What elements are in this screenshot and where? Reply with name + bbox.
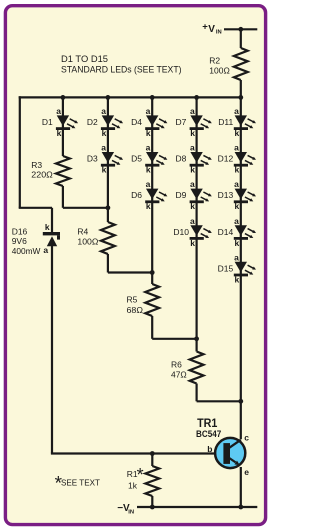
- svg-text:a: a: [234, 106, 239, 116]
- svg-text:D14: D14: [218, 227, 234, 237]
- svg-text:a: a: [234, 179, 239, 189]
- svg-text:k: k: [146, 201, 151, 211]
- LED D6: [131, 179, 167, 211]
- svg-text:47Ω: 47Ω: [171, 370, 187, 380]
- svg-text:SEE TEXT: SEE TEXT: [61, 478, 100, 488]
- junction dots on top bus: [61, 95, 244, 100]
- svg-text:a: a: [234, 143, 239, 153]
- resistor R5: [127, 284, 160, 316]
- svg-text:k: k: [146, 165, 151, 175]
- svg-text:220Ω: 220Ω: [31, 169, 53, 179]
- svg-text:D11: D11: [218, 117, 233, 127]
- svg-text:a: a: [101, 106, 106, 116]
- wire bottom bus: [137, 505, 257, 510]
- svg-text:D1 TO D15: D1 TO D15: [61, 54, 108, 64]
- svg-text:k: k: [234, 238, 239, 248]
- LED D11: [218, 106, 256, 138]
- LED D1: [42, 106, 78, 138]
- LED D10: [173, 216, 211, 248]
- node +Vin junction: [238, 27, 243, 32]
- svg-text:k: k: [146, 128, 151, 138]
- LED D14: [218, 216, 256, 248]
- node R3/column2 junction: [106, 205, 111, 210]
- svg-text:e: e: [244, 467, 249, 477]
- svg-text:R6: R6: [171, 359, 182, 369]
- wire column 1 (D1/R3 branch): [63, 97, 108, 207]
- svg-text:R2: R2: [209, 55, 220, 65]
- node R4/column3 junction: [150, 270, 155, 275]
- svg-text:a: a: [101, 143, 106, 153]
- wire +Vin terminal line: [224, 28, 257, 30]
- svg-text:D4: D4: [131, 117, 142, 127]
- svg-text:D15: D15: [218, 263, 234, 273]
- svg-text:D8: D8: [176, 154, 187, 164]
- svg-text:D3: D3: [87, 154, 98, 164]
- LED D9: [176, 179, 212, 211]
- svg-text:b: b: [207, 444, 212, 454]
- svg-text:BC547: BC547: [196, 429, 221, 439]
- node R5/column4 junction: [194, 336, 199, 341]
- wire base line: [51, 452, 224, 454]
- svg-text:1k: 1k: [128, 481, 138, 491]
- LED D15: [218, 252, 256, 284]
- svg-text:D6: D6: [131, 190, 142, 200]
- svg-text:9V6: 9V6: [12, 236, 27, 246]
- svg-text:a: a: [146, 106, 151, 116]
- svg-text:D13: D13: [218, 190, 234, 200]
- svg-text:100Ω: 100Ω: [77, 236, 98, 246]
- svg-text:D9: D9: [176, 190, 187, 200]
- zener diode D16: [43, 208, 60, 454]
- svg-text:400mW: 400mW: [12, 246, 41, 256]
- svg-text:a: a: [234, 252, 239, 262]
- svg-text:D1: D1: [42, 117, 53, 127]
- svg-text:k: k: [190, 165, 195, 175]
- LED D8: [176, 143, 212, 175]
- svg-text:68Ω: 68Ω: [127, 305, 144, 315]
- svg-text:k: k: [234, 165, 239, 175]
- note see text: [55, 474, 100, 495]
- svg-text:k: k: [234, 128, 239, 138]
- resistor R2: [209, 48, 247, 80]
- svg-text:D5: D5: [131, 154, 142, 164]
- wire column 5 (R2/D11-D15/collector): [240, 29, 242, 507]
- wire column 2 (D2-D3/R4 branch): [108, 97, 152, 272]
- label TR1: [196, 416, 221, 439]
- note D1 to D15: [61, 54, 182, 75]
- resistor R6: [171, 352, 204, 384]
- label D16 value: [12, 227, 41, 257]
- svg-text:R5: R5: [127, 295, 138, 305]
- svg-text:STANDARD LEDs (SEE TEXT): STANDARD LEDs (SEE TEXT): [61, 64, 182, 74]
- LED D7: [176, 106, 212, 138]
- svg-text:k: k: [234, 274, 239, 284]
- LED D5: [131, 143, 167, 175]
- svg-text:k: k: [190, 238, 195, 248]
- power -Vin: [117, 503, 134, 516]
- svg-text:D2: D2: [87, 117, 98, 127]
- svg-text:k: k: [102, 128, 107, 138]
- svg-text:a: a: [190, 106, 195, 116]
- svg-text:D10: D10: [173, 227, 189, 237]
- resistor R3: [31, 156, 70, 186]
- LED D2: [87, 106, 123, 138]
- svg-text:a: a: [190, 143, 195, 153]
- svg-text:a: a: [146, 143, 151, 153]
- node R6/column5 junction: [238, 399, 243, 404]
- svg-text:k: k: [234, 201, 239, 211]
- LED D13: [218, 179, 256, 211]
- svg-text:D7: D7: [176, 117, 187, 127]
- svg-text:a: a: [190, 216, 195, 226]
- svg-text:*: *: [137, 465, 144, 485]
- svg-text:a: a: [190, 179, 195, 189]
- svg-text:a: a: [56, 106, 61, 116]
- power +Vin: [202, 22, 222, 36]
- wire top supply bus: [19, 96, 241, 98]
- svg-text:IN: IN: [128, 510, 134, 516]
- wire left branch vertical: [19, 96, 52, 208]
- svg-text:IN: IN: [216, 30, 222, 36]
- svg-text:TR1: TR1: [197, 416, 218, 430]
- svg-text:V: V: [208, 24, 215, 35]
- wire column 3 (D4-D6/R5 branch): [152, 97, 196, 338]
- svg-text:R4: R4: [77, 226, 88, 236]
- svg-text:100Ω: 100Ω: [209, 65, 230, 75]
- transistor TR1 BC547: [207, 432, 249, 477]
- svg-text:a: a: [146, 179, 151, 189]
- svg-text:c: c: [244, 432, 249, 442]
- svg-text:a: a: [234, 216, 239, 226]
- LED D4: [131, 106, 167, 138]
- svg-text:k: k: [45, 222, 50, 232]
- svg-text:a: a: [43, 245, 48, 255]
- LED D12: [218, 143, 256, 175]
- svg-text:k: k: [57, 128, 62, 138]
- wire column 4 (D7-D10/R6 branch): [197, 97, 241, 401]
- svg-text:D16: D16: [12, 227, 28, 237]
- LED D3: [87, 143, 123, 175]
- svg-text:k: k: [102, 165, 107, 175]
- svg-text:D12: D12: [218, 154, 234, 164]
- resistor R4: [77, 222, 114, 254]
- svg-text:k: k: [190, 128, 195, 138]
- svg-text:k: k: [190, 201, 195, 211]
- resistor R1: [127, 451, 160, 509]
